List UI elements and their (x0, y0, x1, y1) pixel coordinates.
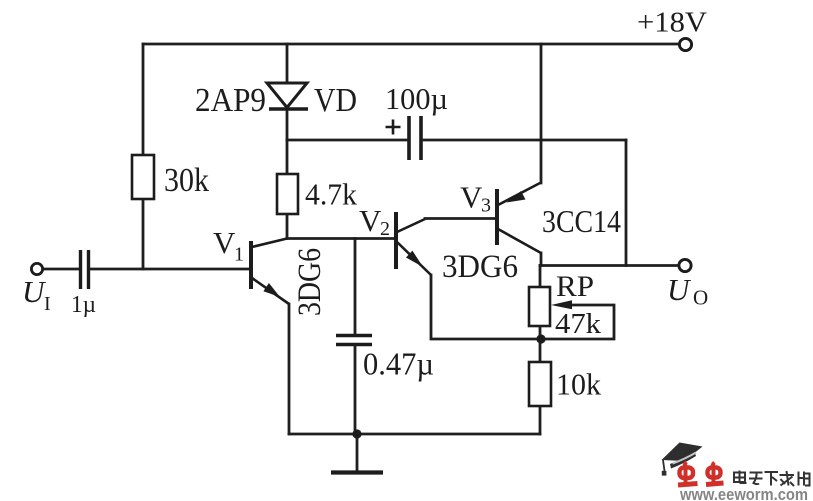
wire V2 emitter down and right (431, 275, 540, 339)
svg-text:0.47µ: 0.47µ (363, 346, 434, 382)
wire 0.47u branch (354, 239, 357, 435)
wire RP wiper loop (541, 305, 614, 339)
wire diode branch vertical (286, 44, 289, 140)
svg-text:10k: 10k (556, 367, 601, 402)
wire 4.7k leads (286, 140, 289, 239)
wire V1 emitter down (288, 304, 291, 434)
svg-text:47k: 47k (555, 309, 601, 340)
terminal output (679, 259, 691, 271)
svg-text:2AP9: 2AP9 (195, 82, 266, 119)
node junction ground (352, 429, 361, 438)
svg-text:4.7k: 4.7k (305, 177, 357, 212)
svg-text:V: V (460, 180, 483, 215)
svg-text:V: V (213, 225, 236, 260)
watermark text dianzi xiazai zhan (734, 471, 811, 487)
svg-text:U: U (667, 272, 692, 307)
wire bootstrap right vertical (625, 140, 628, 266)
svg-text:3: 3 (481, 195, 491, 217)
wire ground stub (356, 434, 359, 471)
watermark chongchong red characters (678, 462, 724, 485)
svg-text:VD: VD (314, 82, 357, 119)
watermark graduation cap (662, 443, 703, 476)
capacitor C1 1u plates (81, 250, 89, 289)
svg-text:3DG6: 3DG6 (292, 248, 328, 316)
transistor V3 (PNP) (497, 183, 541, 253)
svg-text:3CC14: 3CC14 (542, 203, 621, 239)
wire RP leads (539, 266, 542, 340)
wire input line (43, 268, 250, 271)
svg-text:100µ: 100µ (385, 81, 448, 116)
svg-text:V: V (359, 203, 382, 238)
svg-text:www.eeworm.com: www.eeworm.com (679, 486, 808, 501)
wire V3 collector lead (540, 253, 543, 266)
wire top rail +18V (143, 43, 678, 46)
svg-text:1µ: 1µ (71, 292, 96, 318)
svg-text:I: I (44, 293, 51, 315)
transistor V2 (396, 212, 431, 275)
wire V1 collector to V2 base (node A) (287, 237, 395, 240)
svg-text:30k: 30k (164, 162, 209, 199)
terminal input (31, 263, 42, 274)
wire V2 collector to V3 base (425, 217, 496, 220)
terminal +18V (679, 38, 691, 50)
wire 100u cap line (287, 139, 626, 142)
resistor 4.7k (277, 174, 298, 214)
svg-text:RP: RP (556, 270, 594, 303)
potentiometer RP body (529, 287, 550, 326)
wire 10k leads (539, 339, 542, 434)
svg-text:O: O (693, 286, 708, 310)
capacitor 100u polarity plus (386, 120, 401, 135)
diode VD symbol (267, 83, 308, 109)
transistor V1 (251, 239, 289, 305)
capacitor 100u plates (409, 116, 421, 160)
svg-text:3DG6: 3DG6 (442, 249, 518, 285)
wire vertical x=541 rail to V3 emitter (540, 44, 543, 183)
node junction RP/10k/wiper (536, 334, 545, 343)
ground (331, 470, 383, 474)
resistor 10k (529, 362, 551, 406)
resistor 30k (132, 155, 154, 199)
svg-text:2: 2 (380, 218, 390, 240)
svg-text:1: 1 (234, 244, 244, 266)
wire bottom rail (289, 433, 540, 436)
potentiometer RP wiper arrow (551, 300, 572, 309)
svg-text:+18V: +18V (637, 7, 707, 39)
capacitor 0.47u plates (336, 336, 372, 345)
wire left vertical branch (30k branch) (142, 44, 145, 269)
wire output line (540, 264, 679, 267)
